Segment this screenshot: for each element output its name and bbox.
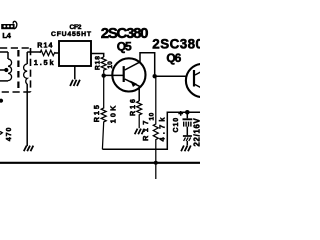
IF transformer secondary winding	[24, 52, 28, 146]
transistor Q5	[112, 58, 145, 91]
svg-text:Q6: Q6	[166, 51, 181, 65]
svg-text:C10: C10	[173, 117, 180, 133]
svg-text:R18: R18	[95, 55, 102, 70]
resistor R15	[101, 76, 106, 150]
junction node (4.7k / bottom bus)	[154, 161, 158, 165]
wire to Q6 base	[155, 75, 187, 77]
svg-text:2SC380: 2SC380	[152, 37, 200, 52]
svg-text:10K: 10K	[108, 104, 117, 124]
svg-text:R15: R15	[92, 103, 101, 122]
wire bottom U run	[102, 112, 200, 149]
wire CF2 output	[91, 54, 104, 58]
transformer core	[17, 50, 19, 92]
svg-text:22/16V: 22/16V	[193, 117, 200, 146]
svg-text:2SC380: 2SC380	[101, 25, 148, 42]
CF2 ground pin	[74, 66, 76, 79]
svg-text:+: +	[178, 108, 183, 118]
resistor R16	[137, 101, 142, 128]
svg-text:R14: R14	[37, 43, 53, 50]
svg-text:CF2: CF2	[70, 24, 82, 31]
dashed shield box of IF transformer	[0, 48, 31, 92]
junction node (Q5 base)	[102, 73, 106, 77]
resistor 4.7k (collector load)	[153, 76, 158, 179]
wire base to Q5	[104, 74, 124, 76]
svg-text:L4: L4	[2, 31, 11, 40]
IF transformer primary winding	[0, 52, 12, 81]
wire from secondary to R14	[27, 51, 40, 54]
ground (CF2)	[70, 80, 80, 86]
svg-text:10: 10	[149, 112, 156, 120]
svg-text:10: 10	[107, 61, 114, 69]
svg-text:470: 470	[6, 127, 13, 142]
junction node (Q5 collector / Q6 base)	[153, 74, 157, 78]
ceramic filter CF2 box	[59, 41, 91, 66]
junction node (C10 top)	[185, 110, 190, 115]
resistor R14	[40, 50, 55, 55]
svg-text:CFU455HT: CFU455HT	[51, 31, 92, 38]
ground (C10)	[181, 146, 191, 152]
svg-text:1.5k: 1.5k	[34, 58, 56, 67]
resistor R18 (CF2 out to Q5 base)	[101, 57, 106, 73]
transistor Q6 (clipped at right edge)	[186, 64, 219, 97]
Q5 emitter wire	[138, 88, 140, 102]
svg-text:4.7k: 4.7k	[158, 114, 167, 141]
bottom bus wire	[0, 162, 200, 164]
inductor L4	[1, 21, 17, 29]
capacitor C10	[183, 112, 193, 145]
junction dot at left edge	[0, 99, 3, 103]
ground (Q5 emitter)	[135, 129, 145, 135]
ground (transformer secondary)	[24, 146, 34, 152]
resistor 470 (cut at left edge)	[0, 132, 2, 135]
primary tap wire	[0, 69, 7, 71]
tap junction dot	[4, 68, 8, 72]
svg-text:R16: R16	[130, 97, 137, 116]
wire R14 to CF2	[55, 52, 59, 54]
Q5 collector wire to top rail	[140, 53, 155, 75]
